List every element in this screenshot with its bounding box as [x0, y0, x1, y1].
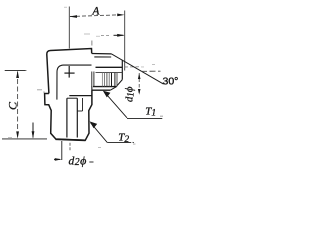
svg-text:C: C: [6, 101, 20, 110]
svg-text:A: A: [91, 5, 100, 17]
svg-text:d1ϕ: d1ϕ: [124, 86, 136, 102]
svg-text:30°: 30°: [163, 76, 179, 88]
